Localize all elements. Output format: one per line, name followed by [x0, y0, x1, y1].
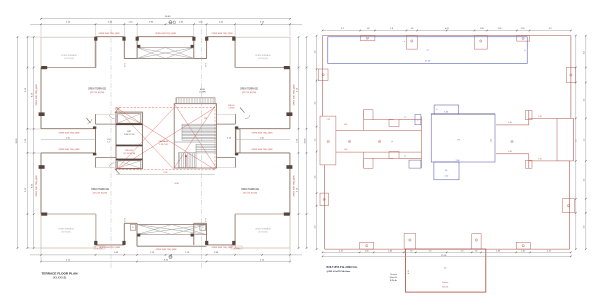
svg-text:@first Fl.: @first Fl.	[389, 276, 397, 279]
svg-text:OPEN TERRACE: OPEN TERRACE	[58, 228, 74, 231]
svg-text:3.0: 3.0	[314, 226, 316, 229]
svg-text:LIFT: LIFT	[127, 131, 132, 133]
svg-text:3.0: 3.0	[584, 51, 586, 54]
svg-text:1.46: 1.46	[344, 149, 348, 151]
svg-text:(XX.XX SQ.M): (XX.XX SQ.M)	[93, 193, 107, 195]
svg-text:OPEN SUN TRQ @BR: OPEN SUN TRQ @BR	[211, 247, 233, 249]
svg-text:OPEN SUN TRQ @BR: OPEN SUN TRQ @BR	[211, 33, 233, 35]
svg-text:1.6: 1.6	[475, 250, 478, 252]
svg-text:a: a	[323, 75, 324, 77]
svg-text:PASSAGE: PASSAGE	[159, 140, 169, 143]
svg-text:Terrace: Terrace	[442, 281, 448, 284]
svg-text:a: a	[417, 120, 418, 122]
svg-text:(XX.XX SQ.M): (XX.XX SQ.M)	[242, 92, 256, 94]
svg-text:1.35: 1.35	[491, 139, 493, 143]
svg-text:1.35: 1.35	[538, 116, 541, 118]
svg-text:DOWN: DOWN	[199, 92, 206, 94]
svg-text:1.5: 1.5	[584, 139, 586, 142]
svg-text:4.47: 4.47	[547, 250, 551, 252]
svg-text:2.0: 2.0	[461, 250, 464, 252]
svg-text:1.35: 1.35	[538, 159, 541, 161]
svg-text:4.8: 4.8	[575, 139, 577, 141]
svg-text:a: a	[523, 38, 524, 40]
svg-text:Terrace: Terrace	[390, 274, 398, 276]
svg-text:OPEN SUN TRQ @BR: OPEN SUN TRQ @BR	[99, 247, 121, 249]
svg-text:OPEN SUN TRQ @BR: OPEN SUN TRQ @BR	[155, 33, 177, 35]
svg-text:OPEN SUN TRQ @BR: OPEN SUN TRQ @BR	[36, 84, 38, 106]
svg-text:(XX SQ.M): (XX SQ.M)	[258, 58, 268, 60]
svg-text:2.0: 2.0	[429, 250, 432, 252]
svg-text:3.5: 3.5	[584, 179, 586, 182]
svg-text:1.6: 1.6	[410, 250, 413, 252]
svg-text:4.10: 4.10	[408, 270, 410, 274]
svg-text:1.35: 1.35	[327, 119, 330, 121]
svg-text:34.45: 34.45	[305, 138, 307, 144]
svg-text:17.25: 17.25	[425, 61, 431, 63]
svg-text:1.45: 1.45	[521, 250, 525, 252]
svg-text:+XX.XX: +XX.XX	[228, 108, 235, 110]
svg-text:BUILT UP B.P AL AREA CAL.: BUILT UP B.P AL AREA CAL.	[327, 266, 359, 269]
svg-text:34.45: 34.45	[165, 16, 171, 18]
svg-text:OPEN SUN TRQ @BR: OPEN SUN TRQ @BR	[251, 149, 273, 151]
svg-text:W 1.50: W 1.50	[234, 248, 240, 250]
svg-text:OPEN TERRACE: OPEN TERRACE	[61, 54, 77, 57]
svg-text:OPEN SUN TRQ @BR: OPEN SUN TRQ @BR	[58, 133, 80, 135]
svg-text:OPEN TERRACE: OPEN TERRACE	[91, 188, 110, 191]
svg-text:TERRACE FLOOR PLAN: TERRACE FLOOR PLAN	[42, 272, 79, 276]
svg-text:OPEN SUN TRQ @BR: OPEN SUN TRQ @BR	[155, 249, 177, 251]
svg-text:a: a	[328, 141, 329, 143]
svg-text:a: a	[476, 240, 477, 242]
svg-text:a: a	[512, 141, 513, 143]
svg-text:a: a	[568, 205, 569, 207]
svg-text:OPEN TERRACE: OPEN TERRACE	[255, 54, 271, 57]
svg-text:1.2: 1.2	[404, 117, 406, 119]
svg-text:(XX,XXX.B): (XX,XXX.B)	[53, 276, 67, 280]
svg-text:OPEN TERRACE: OPEN TERRACE	[241, 188, 260, 191]
svg-text:34.45: 34.45	[16, 138, 18, 144]
svg-text:1.46: 1.46	[344, 124, 348, 126]
svg-text:3.0: 3.0	[314, 51, 316, 54]
svg-text:4.46: 4.46	[508, 122, 512, 124]
svg-text:1.45: 1.45	[365, 250, 369, 252]
svg-text:3.5: 3.5	[314, 176, 316, 179]
svg-text:1.20: 1.20	[445, 176, 449, 178]
svg-text:1.20 CLR: 1.20 CLR	[159, 144, 168, 146]
svg-text:OPEN SUN TRQ @BR: OPEN SUN TRQ @BR	[98, 33, 120, 35]
svg-text:OPEN SUN TRQ @BR: OPEN SUN TRQ @BR	[58, 149, 80, 151]
svg-text:(17.19 SQ.M): (17.19 SQ.M)	[123, 153, 135, 155]
svg-text:OPEN TERRACE: OPEN TERRACE	[255, 228, 271, 231]
svg-text:1.48: 1.48	[388, 250, 392, 252]
svg-text:a: a	[409, 240, 410, 242]
svg-text:1.50: 1.50	[66, 137, 70, 139]
svg-text:OPEN TERRACE: OPEN TERRACE	[240, 88, 259, 91]
svg-text:a: a	[570, 75, 571, 77]
svg-text:OPEN SUN TRQ @BR: OPEN SUN TRQ @BR	[294, 84, 296, 106]
svg-text:b: b	[436, 109, 437, 111]
svg-text:1.50: 1.50	[260, 137, 264, 139]
svg-text:4.46: 4.46	[508, 151, 512, 153]
svg-text:a: a	[367, 38, 368, 40]
svg-text:185 SFT: 185 SFT	[125, 150, 134, 152]
svg-text:OPEN SUN TRQ @BR: OPEN SUN TRQ @BR	[36, 175, 38, 197]
svg-text:a: a	[366, 245, 367, 247]
svg-text:1.48: 1.48	[496, 250, 500, 252]
svg-text:3.5: 3.5	[584, 99, 586, 102]
svg-text:2.60 X 1.90: 2.60 X 1.90	[124, 134, 135, 136]
svg-text:1.4: 1.4	[107, 142, 110, 144]
svg-text:1.2: 1.2	[404, 156, 406, 158]
svg-text:15.16: 15.16	[441, 255, 447, 257]
svg-text:b: b	[379, 141, 380, 143]
svg-text:(XX SQ.M): (XX SQ.M)	[258, 232, 268, 234]
svg-text:OPEN SUN TRQ @BR: OPEN SUN TRQ @BR	[294, 175, 296, 197]
svg-text:a: a	[411, 41, 412, 43]
svg-text:(XX SQ.M): (XX SQ.M)	[61, 232, 71, 234]
svg-text:a: a	[523, 245, 524, 247]
svg-text:(XX SQ.M): (XX SQ.M)	[64, 58, 74, 60]
svg-text:a: a	[404, 41, 405, 43]
svg-text:a: a	[324, 199, 325, 201]
svg-text:a: a	[349, 141, 350, 143]
svg-text:OPEN SUN TRQ @BR: OPEN SUN TRQ @BR	[251, 133, 273, 135]
svg-text:4.47: 4.47	[339, 250, 343, 252]
svg-text:a: a	[480, 41, 481, 43]
svg-text:B.W. Ac: B.W. Ac	[390, 279, 397, 282]
svg-text:1.50: 1.50	[107, 139, 111, 141]
svg-text:(XX.XX SQ.M): (XX.XX SQ.M)	[90, 92, 104, 94]
svg-text:1.5: 1.5	[314, 139, 316, 142]
svg-text:OPEN TERRACE: OPEN TERRACE	[88, 88, 107, 91]
svg-text:3.0: 3.0	[584, 226, 586, 229]
svg-text:(XX.XX SQ.M): (XX.XX SQ.M)	[243, 193, 257, 195]
svg-text:3.5: 3.5	[314, 102, 316, 105]
svg-text:@GR. & IstTO 5th floor: @GR. & IstTO 5th floor	[327, 270, 351, 273]
svg-text:XX.XX: XX.XX	[442, 286, 449, 288]
